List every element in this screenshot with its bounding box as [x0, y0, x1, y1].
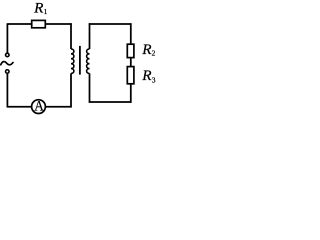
- wire: left loop bottom, left segment to ammeter: [7, 106, 32, 108]
- wire: left loop bottom, right segment from ammeter: [46, 106, 72, 108]
- wire: right loop left side upper (to secondary coil): [89, 23, 91, 49]
- ammeter A: [32, 100, 46, 114]
- wire: left loop right side lower (coil to bottom): [70, 73, 72, 107]
- resistor R3: [127, 67, 134, 84]
- AC source tilde: [1, 62, 13, 65]
- wire: left loop top, left segment to R1: [7, 23, 31, 25]
- wire: left loop top, right segment from R1: [45, 23, 71, 25]
- svg-text:3: 3: [152, 75, 156, 84]
- resistor R2: [127, 44, 134, 57]
- resistor R1: [32, 20, 46, 27]
- wire: right loop bottom: [89, 101, 132, 103]
- wire: left loop right side upper (to primary coil): [70, 23, 72, 49]
- wire: right loop top: [89, 23, 132, 25]
- svg-text:2: 2: [152, 49, 156, 58]
- wire: left side upper (to source terminal): [6, 23, 8, 53]
- transformer primary coil L1: [71, 49, 74, 74]
- svg-text:R: R: [33, 0, 44, 16]
- svg-text:A: A: [34, 99, 44, 115]
- wire: right loop left side lower (coil to bottom): [89, 73, 91, 102]
- wire: left side lower (source to bottom corner): [6, 73, 8, 107]
- wire: right side segment below R3: [130, 84, 132, 103]
- wire: right loop right side, top segment to R2: [130, 23, 132, 44]
- svg-text:R: R: [141, 67, 152, 84]
- wire: right side segment between R2 and R3: [130, 58, 132, 67]
- AC source terminal circle (bottom): [6, 70, 10, 74]
- AC source terminal circle (top): [6, 53, 10, 57]
- svg-text:1: 1: [44, 7, 48, 16]
- transformer core: [79, 46, 81, 75]
- transformer secondary coil L2: [87, 49, 90, 74]
